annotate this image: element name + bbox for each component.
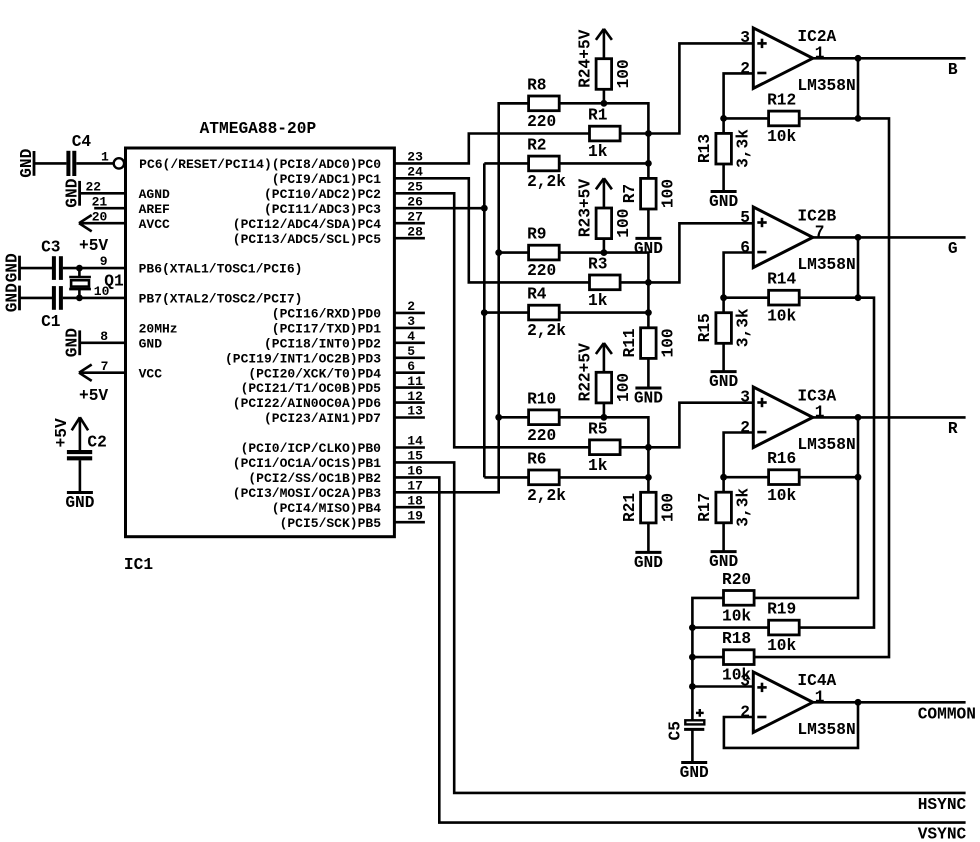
node XTAL1 junction xyxy=(76,265,83,272)
wire pin 25 to R5 xyxy=(394,193,589,447)
svg-text:VCC: VCC xyxy=(139,366,163,381)
wire R22 to node xyxy=(603,403,606,417)
svg-text:C5: C5 xyxy=(666,721,684,740)
ground at C2 xyxy=(65,493,94,513)
svg-text:IC2A: IC2A xyxy=(797,28,836,46)
svg-text:GND: GND xyxy=(3,283,21,312)
svg-text:VSYNC: VSYNC xyxy=(918,825,967,842)
resistor R15 3,3k xyxy=(696,308,753,347)
IC1 reference label xyxy=(124,556,153,574)
IC1 pin 6 stub xyxy=(394,359,425,374)
resistor R18 10k xyxy=(722,630,754,685)
IC1 pin name PC5 xyxy=(233,232,381,247)
svg-text:PB7(XTAL2/TOSC2/PCI7): PB7(XTAL2/TOSC2/PCI7) xyxy=(139,292,303,307)
svg-text:(PCI18/INT0)PD2: (PCI18/INT0)PD2 xyxy=(264,336,381,351)
capacitor C2 xyxy=(67,434,107,459)
IC1 pin name PB5 xyxy=(280,516,382,531)
node R22-R10 junction xyxy=(601,414,608,421)
IC1 pin name PD4 xyxy=(248,366,381,381)
resistor R21 100 xyxy=(621,492,678,523)
svg-text:IC3A: IC3A xyxy=(797,387,836,405)
svg-text:3: 3 xyxy=(740,29,750,47)
net label R xyxy=(948,420,958,438)
wire R23 to node xyxy=(603,239,606,253)
IC1 pin 14 stub xyxy=(394,434,425,449)
wire GND to C4 xyxy=(34,162,66,165)
svg-text:R10: R10 xyxy=(527,390,556,408)
pin 21 stub xyxy=(94,207,125,210)
svg-text:R7: R7 xyxy=(621,184,639,203)
node R2 junction xyxy=(645,160,652,167)
svg-text:R22+5V: R22+5V xyxy=(576,343,594,402)
svg-text:3,3k: 3,3k xyxy=(735,129,753,168)
svg-text:2,2k: 2,2k xyxy=(527,487,566,505)
IC3A pin 2 label xyxy=(740,419,750,437)
node R4 tap xyxy=(481,309,488,316)
wire IC4A feedback loop xyxy=(724,702,858,748)
IC1 pin name PC0 xyxy=(139,157,381,172)
svg-text:GND: GND xyxy=(65,494,94,512)
IC1 pin 28 stub xyxy=(394,224,425,239)
svg-text:10k: 10k xyxy=(767,487,796,505)
wire R5 right xyxy=(620,446,648,449)
svg-text:GND: GND xyxy=(63,178,81,207)
IC4A pin 1 label xyxy=(815,689,825,707)
IC1 pin 19 stub xyxy=(394,508,425,523)
resistor R2 2,2k xyxy=(527,136,566,191)
wire +5V to R24 xyxy=(603,29,606,59)
ground at C5 xyxy=(680,763,709,783)
wire G feedback to R19 xyxy=(799,298,874,628)
svg-text:3,3k: 3,3k xyxy=(735,488,753,527)
node R4 junction xyxy=(645,309,652,316)
node IC4A input junction xyxy=(689,683,696,690)
node COMMON junction xyxy=(855,699,862,706)
svg-text:GND: GND xyxy=(18,148,36,177)
IC1 pin name PC1 xyxy=(272,172,381,187)
IC1 pin name PB0 xyxy=(241,441,382,456)
+5V supply for R23 xyxy=(596,178,612,189)
+5V arrow at pin 20 xyxy=(79,215,108,255)
wire R2 right xyxy=(559,162,648,165)
IC1 pin name GND xyxy=(139,336,163,351)
svg-text:PC6(/RESET/PCI14)(PCI8/ADC0)PC: PC6(/RESET/PCI14)(PCI8/ADC0)PC0 xyxy=(139,157,381,172)
wire R7 to GND xyxy=(647,209,650,238)
svg-text:R11: R11 xyxy=(621,328,639,357)
wire IC4A output xyxy=(813,701,966,704)
IC3A pin 3 label xyxy=(740,389,750,407)
svg-text:10k: 10k xyxy=(767,307,796,325)
IC1 pin name PD2 xyxy=(264,336,381,351)
wire B feedback to R18 xyxy=(754,118,889,657)
IC2B pin 6 label xyxy=(740,239,750,257)
node R12-R13 junction xyxy=(720,115,727,122)
svg-text:+5V: +5V xyxy=(53,418,71,447)
svg-text:GND: GND xyxy=(139,336,163,351)
resistor R5 1k xyxy=(588,420,620,475)
resistor R19 10k xyxy=(767,601,799,656)
IC1 pin name PB6(XTAL1/TOSC1/PCI6) xyxy=(139,262,303,277)
IC1 pin name PB2 xyxy=(248,471,381,486)
IC1 pin name PB7(XTAL2/TOSC2/PCI7) xyxy=(139,292,303,307)
IC1 pin 8 number xyxy=(100,329,108,344)
svg-text:LM358N: LM358N xyxy=(797,256,855,274)
IC1 pin 20 number xyxy=(92,209,108,224)
svg-text:R2: R2 xyxy=(527,136,546,154)
wire node to R16 xyxy=(724,476,769,479)
wire GND to C1 xyxy=(20,297,53,300)
svg-text:2,2k: 2,2k xyxy=(527,173,566,191)
IC1 pin name PD6 xyxy=(233,396,381,411)
resistor R11 100 xyxy=(621,328,678,359)
svg-text:1k: 1k xyxy=(588,143,608,161)
wire C1 to pin 10 xyxy=(63,297,126,300)
IC1 pin name PD0 xyxy=(272,307,381,322)
wire pin 26 bus xyxy=(394,207,484,210)
wire node to R12 xyxy=(724,117,769,120)
resistor R10 220 xyxy=(527,390,559,445)
svg-text:HSYNC: HSYNC xyxy=(918,796,967,814)
svg-text:R24+5V: R24+5V xyxy=(576,29,594,88)
ground at pin 22 xyxy=(63,178,81,207)
svg-text:AGND: AGND xyxy=(139,187,170,202)
IC1 pin 7 number xyxy=(101,359,109,374)
node R9 tap xyxy=(495,249,502,256)
IC1 pin 25 stub xyxy=(407,180,423,195)
svg-text:LM358N: LM358N xyxy=(797,721,855,739)
svg-text:(PCI5/SCK)PB5: (PCI5/SCK)PB5 xyxy=(280,516,382,531)
wire R18 left xyxy=(692,656,723,659)
svg-text:3: 3 xyxy=(740,672,750,690)
svg-text:GND: GND xyxy=(709,553,738,571)
resistor R14 10k xyxy=(767,271,799,326)
svg-text:GND: GND xyxy=(64,328,82,357)
svg-text:1k: 1k xyxy=(588,457,608,475)
IC1 pin name PC3 xyxy=(264,202,381,217)
IC1 pin name AREF xyxy=(139,202,170,217)
node pin 26 junction xyxy=(481,205,488,212)
node R sum junction xyxy=(645,444,652,451)
svg-text:COMMON: COMMON xyxy=(918,706,976,724)
svg-text:(PCI0/ICP/CLKO)PB0: (PCI0/ICP/CLKO)PB0 xyxy=(241,441,382,456)
IC1 pin 13 stub xyxy=(394,404,425,419)
svg-text:(PCI13/ADC5/SCL)PC5: (PCI13/ADC5/SCL)PC5 xyxy=(233,232,381,247)
IC1 pin 5 stub xyxy=(394,344,425,359)
svg-text:R9: R9 xyxy=(527,226,546,244)
IC1 pin 11 stub xyxy=(394,374,425,389)
IC1 pin name PC2 xyxy=(264,187,381,202)
svg-text:R21: R21 xyxy=(621,493,639,522)
svg-text:100: 100 xyxy=(615,373,633,402)
IC1 pin 3 stub xyxy=(394,314,425,329)
wire +5V to R23 xyxy=(603,179,606,208)
svg-text:(PCI11/ADC3)PC3: (PCI11/ADC3)PC3 xyxy=(264,202,381,217)
svg-text:220: 220 xyxy=(527,262,556,280)
wire C4 to pin 1 xyxy=(76,162,113,165)
node R12 output junction xyxy=(855,115,862,122)
svg-text:GND: GND xyxy=(3,253,21,282)
svg-text:100: 100 xyxy=(615,59,633,88)
wire pin 8 GND xyxy=(80,341,126,344)
svg-text:220: 220 xyxy=(527,427,556,445)
node R10 tap xyxy=(495,414,502,421)
wire pin 24 to R3 xyxy=(394,178,589,282)
wire R3 right xyxy=(620,281,648,284)
svg-text:1: 1 xyxy=(815,45,825,63)
IC1 pin name PD3 xyxy=(225,351,381,366)
IC1 pin 23 stub xyxy=(407,150,423,165)
svg-text:R16: R16 xyxy=(767,450,796,468)
svg-text:R8: R8 xyxy=(527,76,546,94)
svg-text:AREF: AREF xyxy=(139,202,170,217)
svg-text:6: 6 xyxy=(740,239,750,257)
ground at R21 xyxy=(634,552,663,572)
net label VSYNC xyxy=(918,825,967,842)
wire bus to R2 xyxy=(484,162,528,165)
IC1 pin 1 number xyxy=(101,150,109,165)
svg-text:GND: GND xyxy=(709,193,738,211)
ground at C4 xyxy=(18,148,36,177)
svg-text:3,3k: 3,3k xyxy=(735,308,753,347)
svg-text:2: 2 xyxy=(740,419,750,437)
wire +5V to C2 xyxy=(79,417,82,450)
svg-text:1k: 1k xyxy=(588,292,608,310)
resistor R9 220 xyxy=(527,226,559,281)
wire bus to R6 xyxy=(484,476,528,479)
svg-text:IC4A: IC4A xyxy=(797,672,836,690)
ground at C3 xyxy=(3,253,21,282)
IC1 pin name PB3 xyxy=(233,486,381,501)
wire C2 to GND xyxy=(79,460,82,492)
svg-text:ATMEGA88-20P: ATMEGA88-20P xyxy=(200,120,317,138)
wire IC3A feedback xyxy=(724,433,754,478)
node R output junction xyxy=(855,414,862,421)
wire +5V to R22 xyxy=(603,343,606,372)
wire C3 to pin 9 xyxy=(63,267,126,270)
IC1 pin name PD5 xyxy=(241,381,382,396)
wire bus to R10 xyxy=(499,416,529,419)
IC1 pin 22 number xyxy=(85,180,101,195)
capacitor C1 xyxy=(41,286,61,331)
wire R8 left xyxy=(499,102,529,105)
svg-text:R5: R5 xyxy=(588,420,607,438)
wire R feedback to R20 xyxy=(754,477,858,598)
svg-text:LM358N: LM358N xyxy=(797,77,855,95)
svg-text:10k: 10k xyxy=(722,608,751,626)
wire pin 7 VCC xyxy=(79,371,126,374)
op-amp IC2A xyxy=(753,28,855,95)
wire C5 to GND xyxy=(691,729,694,762)
IC1 pin 2 stub xyxy=(394,299,425,314)
ground at pin 8 xyxy=(64,328,82,357)
wire G sum to op-amp xyxy=(648,223,753,282)
svg-text:R14: R14 xyxy=(767,271,796,289)
wire R20 left xyxy=(692,598,723,720)
wire IC2A feedback xyxy=(724,73,754,118)
svg-text:R15: R15 xyxy=(696,313,714,342)
svg-text:C1: C1 xyxy=(41,313,61,331)
wire pin 20 AVCC xyxy=(79,222,126,225)
wire R15 top xyxy=(722,298,725,313)
wire to IC4A pin 3 xyxy=(692,685,753,688)
wire IC3A output xyxy=(813,416,966,419)
svg-text:(PCI2/SS/OC1B)PB2: (PCI2/SS/OC1B)PB2 xyxy=(248,471,381,486)
op-amp IC2B xyxy=(753,207,855,274)
net label G xyxy=(948,240,958,258)
wire pin 15 to HSYNC xyxy=(394,462,965,793)
resistor R17 3,3k xyxy=(696,488,753,527)
IC1 ATMEGA88-20P body xyxy=(126,148,395,537)
IC1 pin 26 stub xyxy=(407,194,423,209)
node R14-R15 junction xyxy=(720,294,727,301)
node R23-R9 junction xyxy=(601,249,608,256)
node B sum junction xyxy=(645,130,652,137)
+5V supply arrow at C2 xyxy=(53,417,88,447)
IC4A pin 3 label xyxy=(740,672,750,690)
wire R24 to node xyxy=(603,89,606,103)
svg-text:LM358N: LM358N xyxy=(797,436,855,454)
svg-text:G: G xyxy=(948,240,958,258)
net label HSYNC xyxy=(918,796,967,814)
IC1 pin name PB4 xyxy=(272,501,381,516)
svg-text:R12: R12 xyxy=(767,91,796,109)
IC2B pin 7 label xyxy=(815,224,825,242)
wire R8 right xyxy=(559,103,648,133)
svg-text:(PCI10/ADC2)PC2: (PCI10/ADC2)PC2 xyxy=(264,187,381,202)
IC1 pin name PB1 xyxy=(233,456,381,471)
wire R10 right xyxy=(559,417,648,447)
wire G sum column to R11 xyxy=(647,282,650,327)
capacitor C4 xyxy=(68,133,91,176)
svg-text:(PCI22/AIN0OC0A)PD6: (PCI22/AIN0OC0A)PD6 xyxy=(233,396,381,411)
resistor R20 10k xyxy=(722,571,754,626)
svg-text:(PCI12/ADC4/SDA)PC4: (PCI12/ADC4/SDA)PC4 xyxy=(233,217,381,232)
svg-text:(PCI1/OC1A/OC1S)PB1: (PCI1/OC1A/OC1S)PB1 xyxy=(233,456,381,471)
ground at C1 xyxy=(3,283,21,312)
IC1 pin 18 stub xyxy=(394,493,425,508)
wire R13 to GND xyxy=(722,164,725,192)
crystal frequency label 20MHz xyxy=(139,322,178,337)
svg-text:C4: C4 xyxy=(72,133,92,151)
IC1 pin name PD7 xyxy=(264,411,381,426)
ground at R7 xyxy=(634,238,663,258)
svg-text:C2: C2 xyxy=(87,434,106,452)
IC1 pin name AGND xyxy=(139,187,170,202)
IC1 pin 15 stub xyxy=(407,449,423,464)
svg-text:GND: GND xyxy=(709,373,738,391)
wire node to R14 xyxy=(724,296,769,299)
wire R21 to GND xyxy=(647,523,650,553)
svg-text:+5V: +5V xyxy=(79,237,108,255)
wire R15 to GND xyxy=(722,343,725,371)
svg-text:AVCC: AVCC xyxy=(139,217,170,232)
svg-text:(PCI16/RXD)PD0: (PCI16/RXD)PD0 xyxy=(272,307,381,322)
wire R11 to GND xyxy=(647,358,650,388)
wire R4 right xyxy=(559,311,648,314)
svg-text:R13: R13 xyxy=(696,134,714,163)
svg-text:(PCI20/XCK/T0)PD4: (PCI20/XCK/T0)PD4 xyxy=(248,366,381,381)
svg-text:1: 1 xyxy=(815,404,825,422)
svg-text:(PCI17/TXD)PD1: (PCI17/TXD)PD1 xyxy=(272,322,381,337)
+5V supply for R24 xyxy=(596,29,612,40)
svg-text:2: 2 xyxy=(740,704,750,722)
svg-text:GND: GND xyxy=(680,764,709,782)
IC1 pin 17 stub xyxy=(407,479,423,494)
+5V supply for R22 xyxy=(596,343,612,354)
wire R1 right xyxy=(620,132,648,135)
wire R16 right xyxy=(799,476,858,479)
node R18 left junction xyxy=(689,654,696,661)
IC1 pin name PC4 xyxy=(233,217,381,232)
ground at R11 xyxy=(634,388,663,408)
ground at R13 xyxy=(709,192,738,212)
wire pin 16 to VSYNC xyxy=(394,477,965,822)
IC1 pin name VCC xyxy=(139,366,163,381)
op-amp IC3A xyxy=(753,387,855,454)
IC4A pin 2 label xyxy=(740,704,750,722)
node R24-R8 junction xyxy=(601,100,608,107)
wire R14 right xyxy=(799,296,858,299)
IC2A pin 2 label xyxy=(740,60,750,78)
wire output to G feedback xyxy=(857,237,860,297)
ground at R15 xyxy=(709,372,738,392)
IC1 pin 21 number xyxy=(92,194,108,209)
resistor R3 1k xyxy=(588,255,620,310)
node G output junction xyxy=(855,234,862,241)
node B output junction xyxy=(855,55,862,62)
node R14 output junction xyxy=(855,294,862,301)
node G sum junction xyxy=(645,279,652,286)
node XTAL2 junction xyxy=(76,295,83,302)
svg-text:R3: R3 xyxy=(588,255,607,273)
wire sum column to R7 xyxy=(647,134,650,179)
IC2A pin 3 label xyxy=(740,29,750,47)
net label COMMON xyxy=(918,706,976,724)
svg-text:(PCI9/ADC1)PC1: (PCI9/ADC1)PC1 xyxy=(272,172,381,187)
resistor R12 10k xyxy=(767,91,799,146)
capacitor C5 xyxy=(666,709,704,741)
svg-text:(PCI19/INT1/OC2B)PD3: (PCI19/INT1/OC2B)PD3 xyxy=(225,351,381,366)
IC1 pin 27 stub xyxy=(394,209,425,224)
IC1 pin 9 number xyxy=(100,254,108,269)
wire IC2A output xyxy=(813,57,966,60)
node R16-R17 junction xyxy=(720,474,727,481)
svg-text:7: 7 xyxy=(815,224,825,242)
svg-text:(PCI23/AIN1)PD7: (PCI23/AIN1)PD7 xyxy=(264,411,381,426)
svg-text:PB6(XTAL1/TOSC1/PCI6): PB6(XTAL1/TOSC1/PCI6) xyxy=(139,262,303,277)
wire IC2B output xyxy=(813,236,966,239)
node R19 left junction xyxy=(689,624,696,631)
net label B xyxy=(948,61,958,79)
wire R17 to GND xyxy=(722,523,725,552)
IC1 pin 24 stub xyxy=(407,165,423,180)
svg-text:R1: R1 xyxy=(588,107,608,125)
IC3A pin 1 label xyxy=(815,404,825,422)
svg-text:(PCI4/MISO)PB4: (PCI4/MISO)PB4 xyxy=(272,501,381,516)
svg-text:2: 2 xyxy=(740,60,750,78)
IC1 title ATMEGA88-20P xyxy=(200,120,317,138)
resistor R23 100 xyxy=(576,179,633,239)
resistor R16 10k xyxy=(767,450,799,505)
svg-text:R4: R4 xyxy=(527,286,547,304)
IC2A pin 1 label xyxy=(815,45,825,63)
svg-text:10k: 10k xyxy=(767,637,796,655)
wire pin 22 AGND xyxy=(80,192,126,195)
wire R12 right xyxy=(799,117,858,120)
svg-text:IC2B: IC2B xyxy=(797,207,836,225)
wire R sum to op-amp xyxy=(648,403,753,448)
node R6 junction xyxy=(645,474,652,481)
